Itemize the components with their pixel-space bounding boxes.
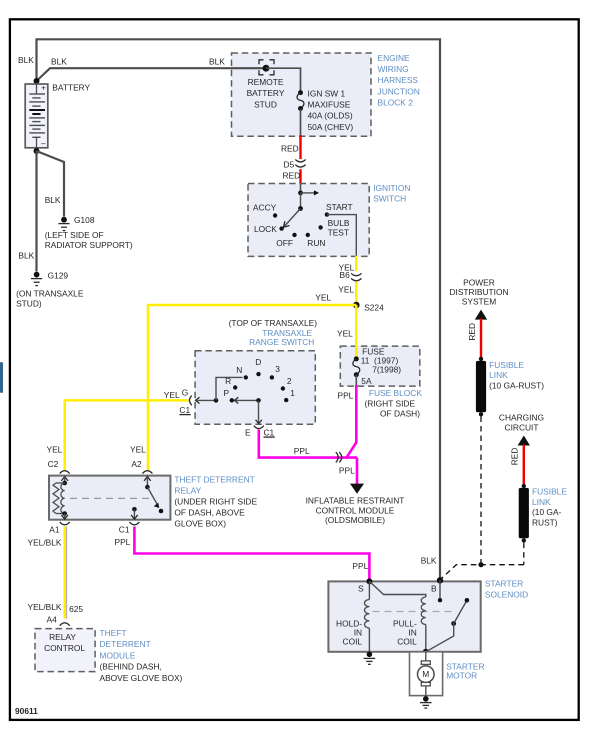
dashed link lower fusible link to junction: [523, 543, 525, 565]
svg-text:SWITCH: SWITCH: [373, 194, 406, 204]
svg-text:BATTERY: BATTERY: [247, 88, 285, 98]
svg-text:FUSIBLE: FUSIBLE: [489, 360, 524, 370]
wire RED connector D5 to ignition switch: [283, 169, 301, 184]
svg-text:MAXIFUSE: MAXIFUSE: [308, 100, 351, 110]
svg-text:N: N: [236, 365, 242, 375]
svg-text:C1: C1: [179, 405, 190, 415]
svg-text:SYSTEM: SYSTEM: [462, 297, 496, 307]
svg-text:D: D: [255, 357, 261, 367]
wire YEL S224 down to fuse block: [337, 305, 356, 359]
svg-text:B6: B6: [340, 270, 351, 280]
svg-text:ABOVE GLOVE BOX): ABOVE GLOVE BOX): [100, 673, 183, 683]
svg-text:RUST): RUST): [532, 517, 558, 527]
wire PPL horizontal run from range switch E to branch: [259, 430, 357, 458]
svg-text:COIL: COIL: [397, 636, 417, 646]
engine wiring harness junction block 2: [232, 53, 420, 137]
svg-text:PPL: PPL: [338, 391, 354, 401]
charging circuit arrow: [499, 412, 544, 445]
inline connector on PPL wire: [336, 452, 342, 462]
svg-text:G108: G108: [74, 215, 95, 225]
connector C1 at range switch G terminal: [164, 387, 192, 415]
svg-text:LINK: LINK: [489, 370, 508, 380]
svg-text:ACCY: ACCY: [253, 202, 277, 212]
svg-text:HARNESS: HARNESS: [378, 75, 419, 85]
starter solenoid: [328, 555, 528, 652]
svg-text:BLK: BLK: [45, 195, 61, 205]
wire YEL range switch G to relay C2: [65, 400, 189, 470]
connector A2 at relay: [130, 445, 152, 474]
connector C1 at relay: [115, 522, 140, 547]
ignition switch: [248, 183, 410, 257]
svg-text:BLK: BLK: [18, 251, 34, 261]
wire RED junction block to connector D5: [281, 135, 301, 159]
fuse 11 (1997) 7 (1998) 5A: [353, 347, 401, 386]
wire PPL fuse block down to splice with inline connector: [338, 385, 357, 458]
svg-text:MOTOR: MOTOR: [446, 671, 477, 681]
wire fuse to junction block edge: [300, 109, 302, 137]
svg-text:B: B: [431, 583, 437, 593]
theft deterrent relay: [49, 474, 257, 528]
svg-text:YEL: YEL: [164, 390, 180, 400]
svg-text:A1: A1: [49, 524, 60, 534]
svg-text:STUD: STUD: [254, 99, 277, 109]
solenoid B contact: [438, 580, 442, 602]
svg-text:–: –: [41, 138, 46, 148]
svg-text:BLK: BLK: [421, 555, 437, 565]
svg-text:YEL: YEL: [338, 285, 354, 295]
svg-text:YEL: YEL: [315, 293, 331, 303]
svg-text:RANGE SWITCH: RANGE SWITCH: [249, 337, 314, 347]
svg-text:RED: RED: [281, 143, 299, 153]
fusible link (10 ga-rust) upper: [476, 357, 544, 417]
svg-text:SOLENOID: SOLENOID: [485, 589, 528, 599]
svg-text:CHARGING: CHARGING: [499, 412, 544, 422]
remote battery stud: [247, 60, 285, 110]
starter motor: [410, 652, 485, 698]
svg-text:S: S: [358, 583, 364, 593]
svg-text:(BEHIND DASH,: (BEHIND DASH,: [100, 661, 162, 671]
svg-text:RUN: RUN: [307, 238, 325, 248]
svg-text:5A: 5A: [361, 376, 372, 386]
dashed link upper fusible link to junction: [480, 417, 482, 565]
svg-text:3: 3: [275, 364, 280, 374]
svg-text:2: 2: [287, 376, 292, 386]
wire PPL branch down to inflatable restraint control module: [339, 458, 357, 484]
svg-text:OF DASH): OF DASH): [380, 409, 420, 419]
svg-text:C2: C2: [48, 459, 59, 469]
svg-text:IGNITION: IGNITION: [373, 183, 410, 193]
fuse IGN SW 1 MAXIFUSE: [297, 88, 353, 132]
svg-text:IGN SW 1: IGN SW 1: [308, 88, 346, 98]
wire fuse to fuse block edge: [355, 375, 357, 386]
svg-text:GLOVE BOX): GLOVE BOX): [174, 519, 226, 529]
svg-text:G: G: [182, 387, 189, 397]
wire from stud to maxifuse: [266, 68, 301, 92]
svg-text:BLOCK 2: BLOCK 2: [378, 98, 414, 108]
arrow to inflatable restraint control module: [306, 484, 405, 525]
svg-text:PPL: PPL: [352, 561, 368, 571]
svg-text:50A (CHEV): 50A (CHEV): [308, 122, 354, 132]
theft deterrent module RELAY CONTROL box: [35, 628, 183, 683]
svg-text:OFF: OFF: [276, 238, 293, 248]
wire BLK battery negative to G129: [18, 151, 36, 272]
connector A1 at relay: [28, 522, 70, 547]
svg-text:(UNDER RIGHT SIDE: (UNDER RIGHT SIDE: [174, 497, 257, 507]
svg-text:YEL: YEL: [130, 445, 146, 455]
svg-text:RELAY: RELAY: [49, 632, 76, 642]
power distribution system arrow: [449, 277, 508, 319]
svg-text:THEFT DETERRENT: THEFT DETERRENT: [174, 474, 254, 484]
relay coil with parallel resistor: [53, 477, 68, 520]
svg-text:M: M: [422, 669, 429, 679]
svg-text:BLK: BLK: [209, 57, 225, 67]
svg-text:YEL/BLK: YEL/BLK: [28, 602, 62, 612]
svg-text:STUD): STUD): [16, 299, 42, 309]
wire BLK battery negative to G108: [37, 151, 65, 217]
svg-text:RELAY: RELAY: [174, 485, 201, 495]
dashed link horizontal run to solenoid B node: [441, 562, 524, 579]
wire BLK battery positive to junction block top run and down to starter solenoid B: [37, 39, 441, 580]
svg-text:RED: RED: [510, 448, 520, 466]
svg-text:PPL: PPL: [339, 465, 355, 475]
svg-text:(TOP OF TRANSAXLE): (TOP OF TRANSAXLE): [229, 318, 318, 328]
svg-text:C1: C1: [119, 524, 130, 534]
connector C1 at range switch E terminal: [245, 426, 275, 438]
svg-text:RED: RED: [467, 323, 477, 341]
svg-text:LOCK: LOCK: [254, 224, 277, 234]
svg-text:YEL/BLK: YEL/BLK: [28, 537, 62, 547]
svg-text:OF DASH, ABOVE: OF DASH, ABOVE: [174, 508, 245, 518]
svg-text:+: +: [41, 83, 46, 93]
svg-text:(ON TRANSAXLE: (ON TRANSAXLE: [16, 289, 84, 299]
connector D5: [284, 159, 306, 169]
svg-text:POWER: POWER: [463, 277, 495, 287]
fusible link (10 ga-rust) lower: [519, 484, 568, 543]
wire YEL connector B6 to splice S224: [338, 281, 356, 305]
svg-text:ENGINE: ENGINE: [378, 53, 411, 63]
svg-text:DETERRENT: DETERRENT: [100, 639, 151, 649]
svg-text:CONTROL: CONTROL: [44, 643, 85, 653]
svg-text:RADIATOR SUPPORT): RADIATOR SUPPORT): [45, 240, 133, 250]
svg-text:7(1998): 7(1998): [372, 364, 401, 374]
svg-text:A4: A4: [47, 615, 58, 625]
ground G129: [16, 271, 84, 309]
svg-text:(RIGHT SIDE: (RIGHT SIDE: [365, 398, 416, 408]
svg-text:THEFT: THEFT: [100, 628, 127, 638]
svg-text:BLK: BLK: [18, 55, 34, 65]
svg-text:FUSIBLE: FUSIBLE: [532, 487, 567, 497]
svg-text:YEL: YEL: [47, 445, 63, 455]
wire RED to charging circuit: [510, 445, 524, 485]
svg-text:E: E: [245, 427, 251, 437]
svg-text:RED: RED: [283, 171, 301, 181]
svg-text:REMOTE: REMOTE: [248, 77, 284, 87]
svg-text:LINK: LINK: [532, 497, 551, 507]
svg-text:WIRING: WIRING: [378, 64, 409, 74]
svg-text:G129: G129: [48, 271, 69, 281]
wire BLK battery positive to remote battery stud: [18, 55, 266, 81]
svg-text:625: 625: [69, 604, 83, 614]
svg-text:CIRCUIT: CIRCUIT: [505, 423, 539, 433]
wire YEL S224 left and down to relay A2: [148, 293, 356, 471]
wire YEL ignition switch START to connector B6: [339, 256, 357, 280]
svg-text:YEL: YEL: [337, 328, 353, 338]
svg-text:BLK: BLK: [51, 57, 67, 67]
svg-text:FUSE BLOCK: FUSE BLOCK: [369, 388, 422, 398]
wire RED to power distribution: [467, 319, 481, 358]
svg-text:C1: C1: [264, 427, 275, 437]
transaxle range switch: [195, 318, 317, 424]
svg-text:(10 GA-RUST): (10 GA-RUST): [489, 380, 544, 390]
svg-text:STARTER: STARTER: [485, 578, 523, 588]
ground G108: [45, 215, 133, 250]
svg-text:1: 1: [290, 388, 295, 398]
svg-text:(OLDSMOBILE): (OLDSMOBILE): [325, 515, 385, 525]
fuse block (right side of dash): [340, 346, 422, 418]
svg-text:COIL: COIL: [343, 636, 363, 646]
svg-text:PPL: PPL: [294, 446, 310, 456]
solenoid ground: [364, 652, 376, 665]
solenoid switch: [426, 598, 469, 652]
starter motor ground: [420, 696, 432, 708]
battery: [25, 78, 90, 154]
svg-text:PPL: PPL: [115, 537, 131, 547]
svg-text:JUNCTION: JUNCTION: [378, 86, 420, 96]
wire PPL relay C1 to starter solenoid S: [134, 527, 369, 582]
svg-text:90611: 90611: [15, 706, 38, 716]
svg-text:P: P: [224, 388, 230, 398]
svg-text:(LEFT SIDE OF: (LEFT SIDE OF: [45, 230, 104, 240]
svg-text:CONTROL MODULE: CONTROL MODULE: [316, 505, 395, 515]
svg-text:BATTERY: BATTERY: [52, 82, 90, 92]
svg-text:(10 GA-: (10 GA-: [532, 507, 562, 517]
svg-text:40A (OLDS): 40A (OLDS): [308, 111, 353, 121]
svg-text:A2: A2: [131, 459, 142, 469]
svg-text:START: START: [326, 202, 353, 212]
svg-text:S224: S224: [364, 303, 384, 313]
svg-text:INFLATABLE RESTRAINT: INFLATABLE RESTRAINT: [306, 495, 405, 505]
relay switch: [131, 477, 163, 520]
connector B6: [351, 273, 361, 281]
connector C2 at relay: [47, 445, 70, 474]
svg-text:MODULE: MODULE: [100, 650, 136, 660]
solenoid pull-in coil: [369, 581, 428, 654]
wire YEL/BLK relay A1 to theft deterrent module A4: [28, 527, 84, 619]
connector A4 at theft deterrent module: [47, 615, 70, 626]
svg-text:D5: D5: [284, 159, 295, 169]
solenoid hold-in coil: [336, 581, 369, 652]
svg-text:TEST: TEST: [328, 227, 349, 237]
splice S224: [353, 302, 384, 313]
